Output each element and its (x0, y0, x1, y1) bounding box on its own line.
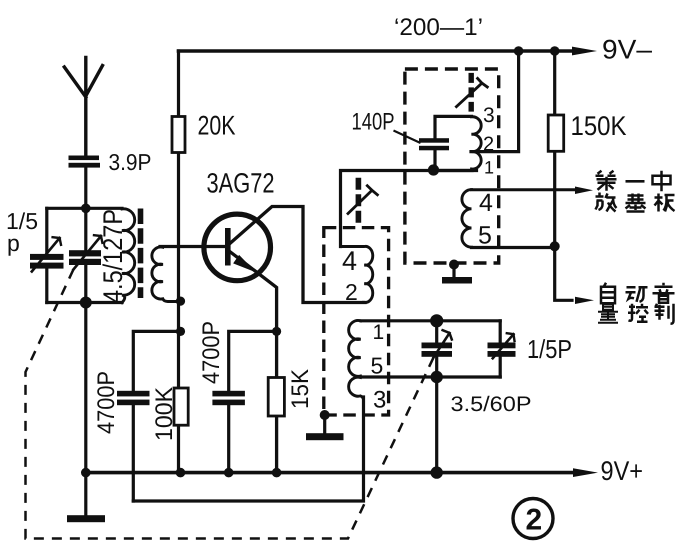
IF transformer dashed box (405, 69, 499, 263)
node emitter bypass (272, 327, 281, 336)
coil T2 4-2 (341, 246, 373, 302)
wire antenna cap to tank top (84, 168, 87, 209)
node tap5 150K (550, 241, 560, 251)
svg-text:4.5/127P: 4.5/127P (98, 209, 128, 303)
variable capacitor osc main (422, 321, 453, 473)
bottom bus 9V+ (86, 471, 578, 475)
feedback wire to osc tap3 (133, 397, 363, 501)
node tank bottom (80, 297, 92, 309)
svg-text:5: 5 (371, 353, 384, 379)
IF primary coil 3-2-1 (472, 117, 482, 169)
wire tap1 to 140P node (435, 169, 472, 172)
svg-text:5: 5 (478, 222, 492, 250)
node base coil bottom (176, 297, 185, 306)
node bias (176, 327, 185, 336)
ground IF (442, 277, 472, 284)
svg-text:3.5/60P: 3.5/60P (451, 393, 532, 416)
svg-text:4: 4 (342, 246, 357, 276)
node bus tap2 (514, 46, 524, 56)
node tank bottom (431, 371, 443, 383)
trimmer capacitor 1/5p left (30, 208, 64, 302)
svg-text:1: 1 (373, 321, 385, 344)
svg-text:3AG72: 3AG72 (207, 168, 275, 199)
svg-text:100K: 100K (151, 387, 178, 441)
svg-text:4: 4 (479, 189, 493, 217)
capacitor 4700P no2 (212, 331, 276, 472)
svg-text:9V+: 9V+ (601, 456, 644, 486)
IF ground stub (452, 265, 455, 278)
top bus 9V- (179, 49, 578, 53)
osc box ground stub (323, 415, 326, 434)
svg-text:‘200—1’: ‘200—1’ (394, 14, 483, 41)
resistor 20K (172, 51, 185, 473)
node tank top (430, 314, 443, 327)
svg-text:150K: 150K (571, 111, 627, 141)
CJK label: zi-dong-yin-liang-kong-zhi (AVC) (598, 283, 675, 324)
svg-text:1/5P: 1/5P (527, 334, 572, 364)
node tank top (81, 204, 91, 214)
pointer 140P (395, 131, 420, 143)
svg-text:2: 2 (345, 279, 358, 305)
svg-text:15K: 15K (287, 369, 314, 409)
node bus 150K (550, 46, 560, 56)
wire collector loop top y170 (341, 171, 477, 247)
osc box shield node (320, 410, 330, 420)
capacitor 4700P no1 (117, 331, 181, 501)
IF core arrow (456, 84, 481, 107)
svg-text:4700P: 4700P (93, 371, 120, 434)
IF secondary coil 4-5 (462, 190, 472, 248)
circled 2 figure number (513, 499, 553, 539)
wire left ground drop (84, 303, 87, 517)
antenna coil L1 primary (122, 209, 135, 303)
variable capacitor main 4.5/127P (69, 208, 102, 302)
antenna (64, 58, 102, 157)
svg-text:140P: 140P (352, 109, 395, 136)
wire tank top (47, 207, 122, 210)
IF box shield node (449, 260, 459, 270)
bus nodes (81, 468, 91, 478)
svg-text:4700P: 4700P (198, 321, 225, 384)
wire tap5 (472, 246, 555, 249)
svg-text:9V–: 9V– (602, 35, 652, 65)
resistor 15K (268, 378, 284, 417)
ferrite core dashes (138, 209, 144, 299)
osc tank tap5 wire (361, 375, 500, 378)
svg-text:3.9P: 3.9P (109, 149, 152, 175)
osc tank top wire (361, 319, 500, 322)
osc core dashes (356, 178, 362, 223)
IF core dashes (469, 73, 474, 112)
svg-text:2: 2 (526, 504, 543, 537)
oscillator transformer dashed box (324, 228, 389, 415)
base coil L1 secondary (152, 247, 177, 302)
wire tank bottom (47, 301, 122, 304)
transistor Q1 3AG72 (204, 207, 365, 473)
CJK label: di-yi-zhong fang-ji-ban (first IF board) (596, 171, 675, 212)
capacitor 140P (419, 116, 472, 170)
wire AVC (555, 246, 572, 300)
osc core arrow (348, 191, 372, 214)
ground left (67, 515, 105, 522)
svg-text:3: 3 (483, 104, 495, 127)
wire tap4 to IF board (472, 188, 578, 191)
svg-text:1: 1 (484, 158, 494, 178)
capacitor C 3.9P (69, 156, 101, 168)
gang link dashed (26, 270, 434, 539)
resistor 100K (174, 388, 188, 425)
wire base (160, 245, 225, 248)
wire tap2 (471, 51, 519, 152)
ground osc (306, 433, 344, 440)
svg-text:20K: 20K (198, 111, 236, 141)
trimmer capacitor 1/5P right (488, 321, 516, 377)
coil T2 1-5-3 (349, 320, 364, 399)
svg-text:p: p (7, 230, 20, 256)
svg-text:3: 3 (373, 387, 386, 414)
node 140P (428, 164, 439, 175)
resistor 150K (548, 51, 564, 246)
